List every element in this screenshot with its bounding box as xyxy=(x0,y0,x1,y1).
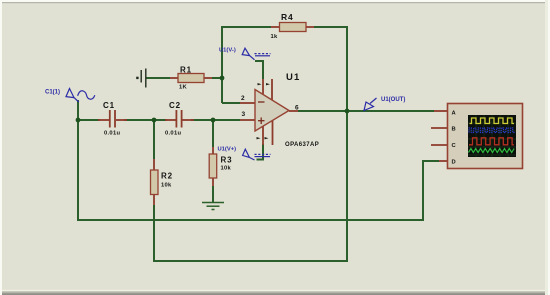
svg-text:0.01u: 0.01u xyxy=(165,131,181,137)
svg-text:R2: R2 xyxy=(161,172,173,181)
svg-text:10k: 10k xyxy=(221,166,232,172)
svg-text:U1(V+): U1(V+) xyxy=(218,147,237,153)
svg-text:C1(1): C1(1) xyxy=(45,90,60,96)
svg-text:6: 6 xyxy=(295,105,299,112)
svg-text:2: 2 xyxy=(241,95,245,102)
svg-text:R1: R1 xyxy=(180,66,192,75)
svg-text:3: 3 xyxy=(242,111,246,118)
svg-text:C2: C2 xyxy=(169,101,181,110)
svg-text:U1: U1 xyxy=(286,72,301,83)
svg-text:10k: 10k xyxy=(161,183,172,189)
svg-text:R4: R4 xyxy=(281,12,293,22)
svg-text:U1(OUT): U1(OUT) xyxy=(381,97,405,103)
svg-text:C1: C1 xyxy=(103,101,115,110)
svg-text:B: B xyxy=(452,127,456,133)
svg-text:D: D xyxy=(452,160,456,166)
svg-text:U1(V-): U1(V-) xyxy=(219,48,236,54)
svg-text:1K: 1K xyxy=(179,85,188,91)
svg-text:0.01u: 0.01u xyxy=(104,131,120,137)
svg-text:OPA637AP: OPA637AP xyxy=(285,142,319,148)
svg-text:R3: R3 xyxy=(221,156,233,165)
svg-text:1k: 1k xyxy=(271,34,279,40)
